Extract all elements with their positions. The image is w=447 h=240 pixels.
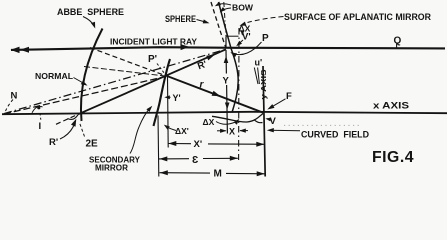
leader arrow from CURVED FIELD label (269, 129, 300, 132)
arrowhead X dimension pointing left (239, 129, 246, 133)
abbe sphere arc (81, 29, 103, 122)
leader from F label (270, 99, 286, 108)
secondary mirror arc through P-prime (154, 59, 171, 126)
X small dimension right shaft (240, 130, 248, 132)
svg-text:CURVED FIELD: CURVED FIELD (301, 130, 369, 140)
curved leader from P label to point P (233, 42, 262, 55)
svg-text:NORMAL: NORMAL (35, 71, 73, 81)
dashed leader from N label (6, 100, 14, 112)
leader from ABBE SPHERE label (83, 17, 95, 27)
X small dimension left shaft (217, 130, 226, 132)
arrow from V label (267, 118, 270, 121)
arrowhead X dimension pointing right (220, 129, 227, 133)
dashed line from origin O to P-prime (4, 76, 167, 114)
y axis vertical line (263, 66, 265, 177)
svg-text:Y: Y (223, 76, 230, 87)
curved leader from R-prime bottom label (60, 123, 75, 140)
svg-text:x AXIS: x AXIS (373, 100, 409, 110)
curved leader from SECONDARY MIRROR label (130, 108, 151, 154)
X-prime dimension line left part (169, 143, 192, 145)
curved field curve through V (212, 114, 263, 123)
delta-X bracket horizontal at top (226, 35, 239, 37)
ray r from P-prime to focal point V (167, 76, 263, 113)
arrow from Y-prime label pointing left (167, 96, 171, 98)
leader from delta-X-prime label (166, 126, 177, 131)
wire incident ray line (top horizontal, line P-Q) (11, 47, 445, 50)
angle 2E arc (68, 115, 79, 120)
arrowhead M right (257, 171, 265, 176)
arrowhead on incident ray pointing right at x=189 (180, 44, 189, 50)
svg-text:SPHERE: SPHERE (165, 14, 196, 24)
arrowhead Y dimension pointing down (225, 103, 230, 110)
Y dimension vertical lower segment (226, 85, 229, 134)
normal line (dash-dot from origin O to point P on mirror) (4, 49, 226, 113)
svg-text:ΔX': ΔX' (175, 126, 189, 136)
leader from V-prime label (238, 40, 243, 45)
curved field dip mark below V (254, 120, 263, 123)
dashed line from abbe-sphere/ray crossing to P-prime (90, 48, 167, 76)
arrowhead M left (160, 170, 168, 175)
svg-text:ΔX: ΔX (239, 24, 251, 34)
arrowhead X-prime right (256, 142, 264, 147)
dashed leader from P-prime label (157, 64, 165, 74)
svg-text:Ɛ: Ɛ (192, 155, 199, 166)
arrow from delta-X top label pointing down (241, 32, 244, 35)
faint dotted line right of V (284, 124, 362, 126)
svg-text:P': P' (148, 54, 157, 65)
svg-text:I: I (39, 121, 42, 132)
svg-text:Y': Y' (173, 93, 181, 103)
M dimension line right part (226, 172, 265, 174)
arrowhead on R-prime ray pointing up-right (206, 55, 215, 61)
svg-text:MIRROR: MIRROR (95, 163, 128, 173)
X-prime dimension line right part (208, 143, 264, 145)
dashed leader from 2E label (80, 124, 85, 137)
Y-prime / X-prime extension vertical below P-prime (167, 77, 170, 148)
BOW lower leader hook (221, 8, 231, 11)
svg-text:P: P (262, 33, 269, 44)
squiggle leader from delta-X bottom label (216, 121, 238, 125)
sphere arc (dashed, through point P) (211, 2, 226, 48)
svg-text:N: N (11, 91, 18, 102)
leader from SPHERE label (197, 20, 208, 23)
svg-text:F: F (286, 91, 292, 102)
delta-X bracket left vertical (225, 36, 227, 48)
arrowhead X-prime left (168, 141, 176, 146)
surface of aplanatic mirror curve (219, 2, 239, 113)
svg-text:M: M (214, 169, 222, 180)
angle u-prime wedge line left (254, 68, 258, 85)
svg-text:ABBE SPHERE: ABBE SPHERE (57, 7, 124, 17)
svg-text:V: V (270, 116, 277, 127)
svg-text:SURFACE OF APLANATIC MIRROR: SURFACE OF APLANATIC MIRROR (284, 12, 431, 22)
arrowhead on ray r pointing down-right (212, 91, 221, 97)
tick below Q label (396, 44, 398, 48)
M dimension line left part (160, 172, 211, 174)
radius line R-prime from axis crossing through P-prime to P (78, 49, 226, 114)
svg-text:2E: 2E (86, 139, 99, 150)
dashed leader from SURFACE OF APLANATIC MIRROR label (248, 17, 284, 23)
E dimension line right part (203, 157, 238, 159)
svg-text:X: X (229, 127, 235, 137)
Y dimension vertical upper segment (225, 50, 227, 74)
svg-text:y AXIS: y AXIS (259, 70, 268, 100)
arrowhead E right (230, 156, 238, 161)
dashed extension of R-prime below x axis (56, 114, 78, 124)
arrowhead left end of incident ray (outer) (11, 47, 20, 54)
BOW upper leader hook (217, 4, 232, 5)
leader from NORMAL label (74, 78, 86, 85)
E dimension line left part (159, 158, 189, 160)
dashed leader from angle I to I label (40, 114, 41, 122)
dash-dot chord axis above point P (224, 2, 226, 36)
E and M left extension vertical (157, 116, 160, 177)
arrowhead Y dimension pointing up (224, 56, 229, 63)
x axis line (2, 112, 447, 114)
svg-text:ΔX: ΔX (203, 117, 215, 127)
dash-dot vertical through mirror vertex plane x=239 (238, 28, 240, 160)
svg-text:FIG.4: FIG.4 (372, 149, 414, 166)
arrowhead E left (159, 156, 167, 161)
svg-text:BOW: BOW (232, 3, 254, 13)
svg-text:X': X' (194, 139, 203, 150)
svg-text:u': u' (255, 58, 263, 68)
dashed line from abbe sphere to P-prime (lower) (84, 67, 167, 77)
svg-text:Q: Q (394, 36, 402, 47)
angle I arc at origin (32, 106, 43, 112)
svg-text:INCIDENT LIGHT RAY: INCIDENT LIGHT RAY (110, 36, 197, 46)
angle u-prime wedge line right (258, 68, 260, 85)
arrowhead left end of incident ray (inner) (20, 47, 29, 53)
angle I dot (37, 106, 40, 109)
svg-text:R': R' (49, 137, 58, 148)
